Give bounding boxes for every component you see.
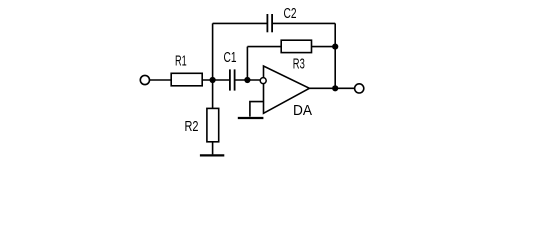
wire R1 to C1 (202, 79, 230, 81)
wire non-inverting input (250, 102, 264, 117)
node C (332, 44, 338, 50)
svg-text:R2: R2 (185, 118, 199, 135)
ground (op-amp) (238, 117, 264, 119)
wire output (309, 87, 354, 89)
resistor R2 (207, 108, 219, 141)
op-amp U1 triangle (264, 66, 310, 113)
output terminal (355, 84, 364, 93)
wire feedback vertical (334, 23, 336, 88)
node B (244, 77, 250, 83)
resistor R1 (171, 73, 202, 86)
capacitor C2 (267, 14, 272, 32)
svg-text:C2: C2 (284, 5, 297, 22)
wire C1 to op-amp input (235, 79, 261, 81)
svg-text:C1: C1 (224, 49, 237, 66)
wire R3 to node C (312, 46, 336, 48)
wire C2 to right (272, 22, 335, 24)
capacitor C1 (230, 69, 235, 90)
svg-text:DA: DA (293, 102, 312, 119)
svg-text:R3: R3 (293, 55, 305, 72)
wire input to R1 (150, 79, 172, 81)
wire node B up (246, 47, 248, 80)
wire R2 to ground (212, 142, 214, 155)
resistor R3 (281, 40, 311, 52)
node A (210, 77, 216, 83)
wire to R3 (247, 46, 281, 48)
node D (output junction) (332, 85, 338, 91)
wire top to C2 (213, 22, 268, 24)
input terminal (140, 75, 149, 84)
ground (bottom) (200, 154, 224, 156)
wire node A down to R2 (212, 80, 214, 108)
svg-text:R1: R1 (175, 52, 187, 69)
wire node A up (212, 23, 214, 80)
inverting input bubble (260, 78, 266, 84)
